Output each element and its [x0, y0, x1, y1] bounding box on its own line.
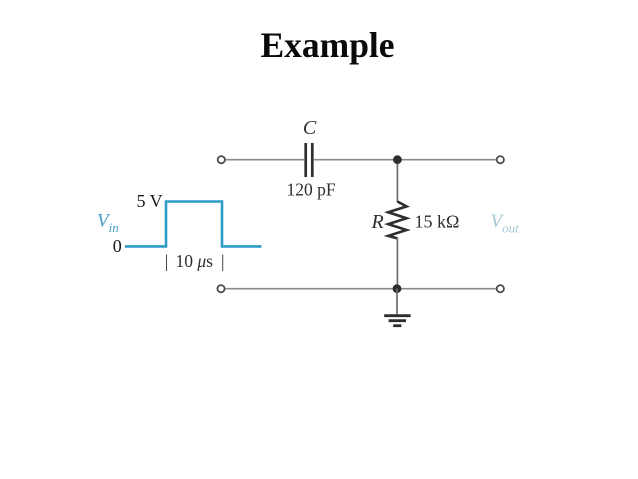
input waveform Vin pulse — [125, 202, 262, 247]
terminal output bottom — [497, 285, 504, 292]
node junction top — [393, 155, 402, 164]
terminal input bottom — [217, 285, 224, 292]
wire top-right (capacitor to output terminal) — [314, 159, 497, 161]
wire bottom-right (junction to output terminal) — [397, 288, 497, 290]
svg-text:120 pF: 120 pF — [286, 180, 335, 200]
svg-text:Vin: Vin — [97, 210, 119, 235]
wire bottom-left (input terminal to junction) — [226, 288, 398, 290]
svg-text:|10 μs|: |10 μs| — [165, 251, 225, 271]
wire junction to resistor top — [396, 160, 398, 202]
svg-text:15 kΩ: 15 kΩ — [415, 212, 460, 232]
node junction bottom — [393, 284, 402, 293]
terminal output top — [497, 156, 504, 163]
wire resistor bottom to junction — [396, 238, 398, 289]
svg-text:5 V: 5 V — [137, 191, 163, 211]
wire top-left (input terminal to capacitor) — [226, 159, 305, 161]
terminal input top — [218, 156, 225, 163]
svg-text:C: C — [303, 117, 317, 139]
svg-text:Vout: Vout — [491, 211, 520, 236]
svg-text:0: 0 — [113, 236, 122, 256]
capacitor C — [306, 143, 313, 177]
svg-text:Example: Example — [260, 25, 394, 65]
svg-text:R: R — [371, 211, 384, 233]
ground — [384, 289, 410, 326]
resistor R — [388, 202, 406, 239]
